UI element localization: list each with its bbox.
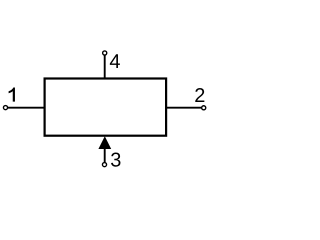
svg-text:4: 4 [109, 51, 120, 73]
svg-text:3: 3 [110, 150, 121, 172]
svg-text:2: 2 [194, 85, 205, 107]
